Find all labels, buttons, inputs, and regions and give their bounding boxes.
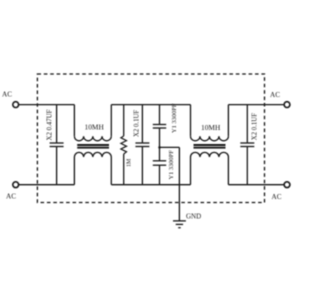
wire ground drop (178, 147, 180, 221)
inductor L2 right vertical wires (227, 105, 229, 137)
terminal J1 (AC top-left) (13, 102, 19, 108)
wire top line segment 2 (111, 104, 190, 106)
svg-text:1M: 1M (127, 158, 133, 167)
resistor R1 zigzag (121, 136, 127, 154)
node Y midpoint junction (158, 146, 161, 149)
capacitor C2 plates (135, 142, 149, 144)
capacitor C4 (Y lower) plates (153, 160, 166, 162)
svg-text:10MH: 10MH (85, 123, 105, 132)
svg-text:AC: AC (272, 193, 282, 201)
enclosure dashed box (37, 74, 264, 203)
terminal J2 (AC bottom-left) (13, 182, 19, 188)
svg-text:X2 0.1UF: X2 0.1UF (251, 113, 258, 140)
inductor L2 bottom winding (191, 152, 229, 157)
svg-text:AC: AC (2, 91, 12, 99)
wire Y midpoint to ground tap (160, 146, 180, 148)
svg-text:AC: AC (270, 91, 280, 99)
resistor R1 wires (123, 105, 125, 136)
inductor L2 top winding (191, 136, 229, 141)
inductor L1 right vertical wires (110, 105, 112, 137)
wire bottom line segment 3 (228, 184, 284, 186)
wire bottom line segment 2 (111, 184, 190, 186)
svg-text:10MH: 10MH (201, 123, 221, 132)
inductor L2 left vertical wires (190, 105, 192, 137)
inductor L2 core (194, 144, 226, 146)
svg-text:Y1 3300PF: Y1 3300PF (168, 150, 175, 180)
terminal J4 (AC bottom-right) (284, 182, 290, 188)
terminal J3 (AC top-right) (284, 102, 290, 108)
wire top line segment 3 (228, 104, 284, 106)
capacitor C3 plates (153, 124, 166, 126)
capacitor C1 wires (56, 105, 58, 143)
wire top line segment 1 (19, 104, 74, 106)
svg-text:AC: AC (6, 193, 16, 201)
svg-text:X2 0.1UF: X2 0.1UF (133, 110, 140, 137)
capacitor C5 wires (246, 105, 248, 143)
svg-text:X2 0.47UF: X2 0.47UF (46, 109, 53, 140)
capacitor C1 plates (50, 142, 64, 144)
wire bottom line segment 1 (19, 184, 74, 186)
svg-text:Y1 3300PF: Y1 3300PF (171, 103, 178, 133)
svg-text:GND: GND (186, 213, 201, 221)
ground symbol (173, 220, 186, 222)
inductor L1 bottom winding (74, 152, 111, 157)
inductor L1 top winding (74, 136, 111, 141)
capacitor C4 lower wire (159, 165, 161, 185)
inductor L1 core (77, 144, 109, 146)
capacitor C2 wires (141, 105, 143, 143)
inductor L1 left vertical wires (73, 105, 75, 137)
capacitor C3 (Y upper) wires (159, 105, 161, 125)
capacitor C5 plates (240, 142, 254, 144)
